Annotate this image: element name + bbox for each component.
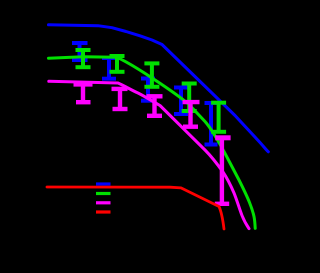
magenta error bar 1 bbox=[74, 84, 93, 102]
blue error bar 1 bbox=[72, 43, 88, 60]
blue legend swatch bbox=[96, 182, 111, 185]
green error bar 3 bbox=[144, 63, 159, 86]
magenta curve bbox=[49, 81, 249, 228]
red curve bbox=[47, 187, 224, 229]
magenta error bar 3 bbox=[147, 96, 163, 116]
green error bar 5 bbox=[211, 103, 226, 132]
blue error bar 4 bbox=[174, 88, 188, 115]
blue error bar 5 bbox=[205, 103, 218, 145]
magenta error bar 5 bbox=[215, 138, 231, 204]
green legend swatch bbox=[96, 192, 111, 195]
red legend swatch bbox=[96, 210, 111, 213]
green error bar 1 bbox=[76, 50, 91, 67]
blue error bar 3 bbox=[141, 79, 155, 101]
blue error bar 2 bbox=[102, 58, 116, 79]
green error bar 4 bbox=[182, 84, 197, 112]
green error bar 2 bbox=[110, 56, 125, 72]
blue curve bbox=[49, 25, 269, 152]
magenta legend swatch bbox=[96, 201, 111, 204]
magenta error bar 4 bbox=[183, 102, 200, 127]
magenta error bar 2 bbox=[112, 89, 128, 109]
green curve bbox=[49, 57, 256, 229]
